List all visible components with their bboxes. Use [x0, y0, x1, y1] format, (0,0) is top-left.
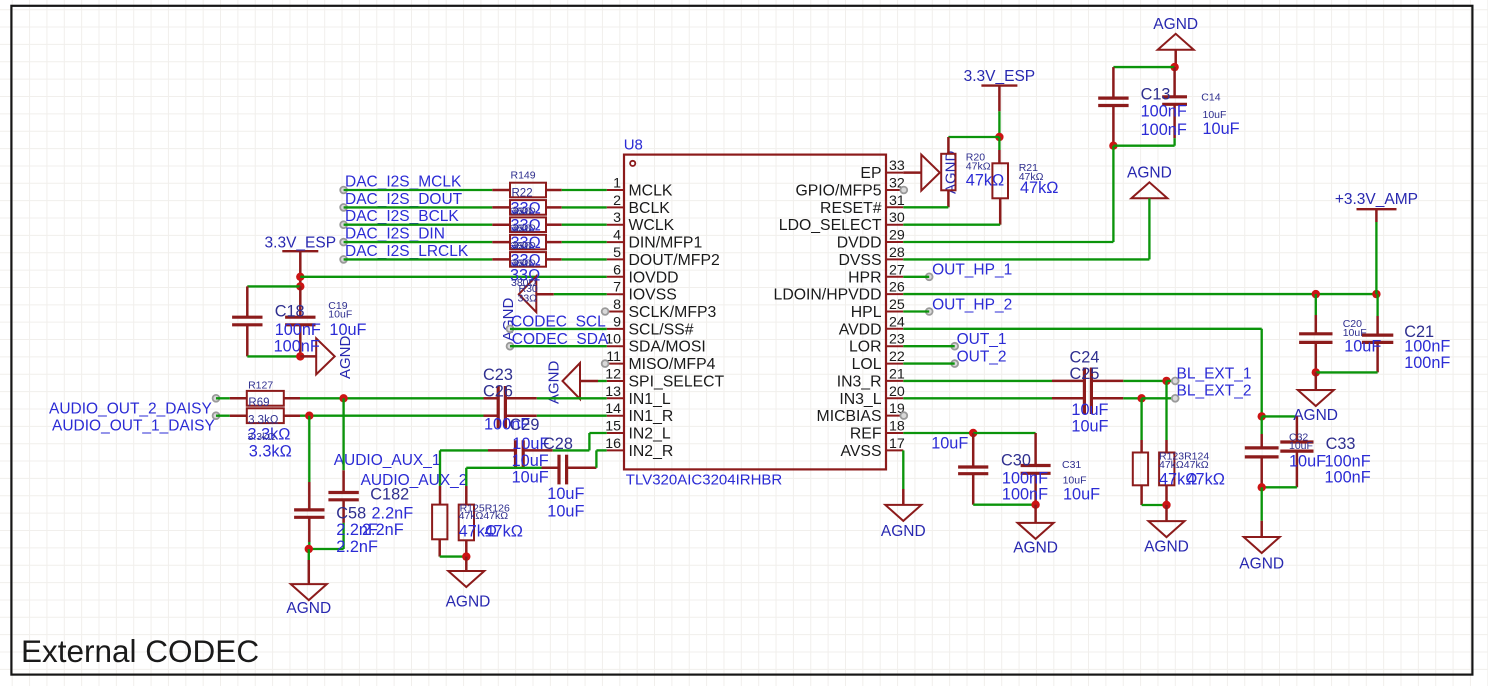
svg-text:R69: R69: [248, 397, 269, 409]
svg-text:3.3V_ESP: 3.3V_ESP: [265, 235, 337, 252]
svg-text:24: 24: [889, 314, 905, 330]
svg-text:BL_EXT_1: BL_EXT_1: [1177, 365, 1252, 382]
svg-text:C33: C33: [1326, 435, 1356, 453]
svg-text:External CODEC: External CODEC: [21, 633, 259, 669]
svg-text:R22: R22: [512, 188, 533, 200]
svg-text:SCL/SS#: SCL/SS#: [629, 321, 694, 338]
svg-text:C29: C29: [510, 416, 540, 434]
svg-text:33Ω: 33Ω: [513, 240, 533, 252]
svg-text:C26: C26: [483, 383, 513, 401]
svg-text:2.2nF: 2.2nF: [372, 505, 414, 523]
svg-text:100nF: 100nF: [1404, 354, 1450, 372]
svg-text:AGND: AGND: [1153, 16, 1198, 33]
svg-text:SPI_SELECT: SPI_SELECT: [629, 374, 725, 391]
svg-text:10uF: 10uF: [547, 503, 584, 521]
svg-text:IOVSS: IOVSS: [629, 287, 677, 304]
svg-text:WCLK: WCLK: [629, 217, 675, 234]
svg-text:C23: C23: [483, 366, 513, 384]
svg-text:23: 23: [889, 332, 905, 348]
svg-text:IN2_L: IN2_L: [629, 426, 671, 443]
svg-text:10uF: 10uF: [512, 469, 549, 487]
svg-text:U8: U8: [624, 137, 643, 154]
svg-text:+3.3V_AMP: +3.3V_AMP: [1335, 191, 1418, 208]
svg-text:13: 13: [605, 384, 621, 400]
svg-text:OUT_1: OUT_1: [957, 331, 1007, 348]
svg-text:OUT_HP_2: OUT_HP_2: [932, 296, 1012, 313]
svg-text:10uF: 10uF: [1289, 453, 1326, 471]
svg-text:47kΩ: 47kΩ: [485, 522, 523, 540]
svg-text:AGND: AGND: [1293, 407, 1338, 424]
svg-text:AGND: AGND: [1144, 539, 1189, 556]
svg-text:DVSS: DVSS: [838, 252, 881, 269]
svg-text:LDO_SELECT: LDO_SELECT: [779, 217, 882, 234]
svg-text:10uF: 10uF: [1344, 338, 1381, 356]
svg-text:DAC_I2S_LRCLK: DAC_I2S_LRCLK: [345, 243, 469, 260]
svg-text:33Ω: 33Ω: [518, 293, 538, 305]
svg-text:8: 8: [613, 297, 621, 313]
svg-text:20: 20: [889, 384, 905, 400]
svg-text:GPIO/MFP5: GPIO/MFP5: [795, 183, 881, 200]
svg-text:6: 6: [613, 262, 621, 278]
svg-text:C182: C182: [370, 485, 409, 503]
svg-text:14: 14: [605, 401, 621, 417]
svg-text:100nF: 100nF: [275, 321, 321, 339]
svg-text:27: 27: [889, 262, 905, 278]
svg-text:AGND: AGND: [1127, 164, 1172, 181]
svg-text:28: 28: [889, 245, 905, 261]
svg-text:SCLK/MFP3: SCLK/MFP3: [629, 304, 717, 321]
svg-text:AGND: AGND: [446, 594, 491, 611]
svg-text:R127: R127: [248, 380, 273, 392]
svg-text:AVDD: AVDD: [839, 321, 882, 338]
svg-text:REF: REF: [850, 426, 882, 443]
svg-text:C28: C28: [543, 435, 573, 453]
svg-text:380Ω: 380Ω: [511, 277, 537, 289]
svg-text:DAC_I2S_DIN: DAC_I2S_DIN: [345, 226, 445, 243]
svg-text:47kΩ47kΩ: 47kΩ47kΩ: [459, 510, 509, 522]
svg-text:C24: C24: [1070, 349, 1100, 367]
svg-text:EP: EP: [860, 165, 881, 182]
svg-text:10uF: 10uF: [931, 435, 968, 453]
svg-text:C25: C25: [1070, 365, 1100, 383]
svg-text:100nF: 100nF: [274, 337, 320, 355]
svg-text:17: 17: [889, 436, 905, 452]
svg-text:100nF: 100nF: [1325, 469, 1371, 487]
svg-text:LDOIN/HPVDD: LDOIN/HPVDD: [774, 287, 882, 304]
svg-text:OUT_HP_1: OUT_HP_1: [932, 261, 1012, 278]
svg-text:MISO/MFP4: MISO/MFP4: [629, 356, 716, 373]
svg-text:3.3kΩ: 3.3kΩ: [248, 431, 276, 443]
svg-text:100nF: 100nF: [1404, 338, 1450, 356]
svg-text:HPL: HPL: [851, 304, 882, 321]
svg-text:18: 18: [889, 419, 905, 435]
svg-text:100nF: 100nF: [1141, 121, 1187, 139]
svg-text:IN1_R: IN1_R: [629, 408, 674, 425]
svg-text:26: 26: [889, 280, 905, 296]
svg-text:C30: C30: [1001, 452, 1031, 470]
svg-text:AGND: AGND: [943, 150, 960, 194]
svg-text:C31: C31: [1062, 459, 1081, 471]
svg-text:DAC_I2S_MCLK: DAC_I2S_MCLK: [345, 174, 462, 191]
svg-text:AGND: AGND: [337, 335, 354, 379]
svg-text:10uF: 10uF: [547, 485, 584, 503]
svg-text:2.2nF: 2.2nF: [362, 521, 404, 539]
svg-text:47kΩ: 47kΩ: [966, 172, 1004, 190]
svg-text:AUDIO_OUT_2_DAISY: AUDIO_OUT_2_DAISY: [49, 400, 212, 417]
svg-text:9: 9: [613, 314, 621, 330]
svg-text:25: 25: [889, 297, 905, 313]
svg-text:DVDD: DVDD: [837, 235, 882, 252]
svg-text:33: 33: [889, 158, 905, 174]
svg-text:5: 5: [613, 245, 621, 261]
svg-text:DOUT/MFP2: DOUT/MFP2: [629, 252, 720, 269]
svg-text:1: 1: [613, 176, 621, 192]
svg-text:10uF: 10uF: [1071, 417, 1108, 435]
svg-text:DAC_I2S_BCLK: DAC_I2S_BCLK: [345, 208, 459, 225]
svg-text:TLV320AIC3204IRHBR: TLV320AIC3204IRHBR: [626, 472, 783, 489]
svg-text:C58: C58: [336, 505, 366, 523]
svg-text:AUDIO_OUT_1_DAISY: AUDIO_OUT_1_DAISY: [52, 418, 215, 435]
svg-text:IN3_L: IN3_L: [839, 391, 881, 408]
svg-text:MCLK: MCLK: [629, 183, 673, 200]
svg-text:31: 31: [889, 193, 905, 209]
svg-text:AGND: AGND: [1013, 540, 1058, 557]
svg-text:C18: C18: [275, 302, 305, 320]
svg-text:4: 4: [613, 228, 621, 244]
svg-text:AUDIO_AUX_1: AUDIO_AUX_1: [334, 452, 441, 469]
svg-text:AGND: AGND: [881, 523, 926, 540]
svg-text:10uF: 10uF: [329, 321, 366, 339]
svg-text:47kΩ: 47kΩ: [1020, 179, 1058, 197]
svg-text:DAC_I2S_DOUT: DAC_I2S_DOUT: [345, 191, 463, 208]
svg-text:LOL: LOL: [852, 356, 882, 373]
svg-text:C14: C14: [1201, 92, 1220, 104]
svg-text:C13: C13: [1141, 85, 1171, 103]
svg-text:15: 15: [605, 419, 621, 435]
svg-text:IN1_L: IN1_L: [629, 391, 671, 408]
svg-text:10uF: 10uF: [328, 308, 352, 320]
svg-text:IOVDD: IOVDD: [629, 269, 679, 286]
svg-text:7: 7: [613, 280, 621, 296]
svg-text:47kΩ: 47kΩ: [1187, 471, 1225, 489]
svg-text:33Ω: 33Ω: [513, 205, 533, 217]
svg-text:IN3_R: IN3_R: [837, 373, 882, 390]
svg-text:12: 12: [605, 367, 621, 383]
svg-text:IN2_R: IN2_R: [629, 443, 674, 460]
svg-text:3.3V_ESP: 3.3V_ESP: [964, 68, 1036, 85]
svg-text:2: 2: [613, 193, 621, 209]
svg-text:AVSS: AVSS: [841, 443, 882, 460]
svg-text:DIN/MFP1: DIN/MFP1: [629, 235, 703, 252]
svg-text:100nF: 100nF: [1141, 103, 1187, 121]
svg-text:10uF: 10uF: [1289, 440, 1313, 452]
svg-text:R149: R149: [511, 170, 536, 182]
svg-text:BCLK: BCLK: [629, 200, 671, 217]
svg-text:HPR: HPR: [848, 269, 881, 286]
svg-text:16: 16: [605, 436, 621, 452]
svg-text:3.3kΩ: 3.3kΩ: [249, 443, 292, 461]
svg-text:10uF: 10uF: [1063, 486, 1100, 504]
svg-text:BL_EXT_2: BL_EXT_2: [1177, 383, 1252, 400]
svg-text:2.2nF: 2.2nF: [336, 538, 378, 556]
svg-text:33Ω: 33Ω: [513, 223, 533, 235]
svg-text:21: 21: [889, 366, 905, 382]
svg-text:AGND: AGND: [286, 600, 331, 617]
svg-text:AGND: AGND: [1239, 556, 1284, 573]
svg-text:10uF: 10uF: [512, 452, 549, 470]
svg-text:SDA/MOSI: SDA/MOSI: [629, 339, 706, 356]
svg-text:29: 29: [889, 228, 905, 244]
svg-text:OUT_2: OUT_2: [957, 348, 1007, 365]
svg-text:30: 30: [889, 210, 905, 226]
svg-text:100nF: 100nF: [1002, 486, 1048, 504]
svg-text:3: 3: [613, 210, 621, 226]
svg-text:47kΩ47kΩ: 47kΩ47kΩ: [1159, 459, 1209, 471]
svg-text:LOR: LOR: [849, 339, 881, 356]
svg-text:10uF: 10uF: [1071, 401, 1108, 419]
svg-text:10uF: 10uF: [1203, 120, 1240, 138]
svg-text:RESET#: RESET#: [820, 200, 882, 217]
svg-text:22: 22: [889, 349, 905, 365]
svg-text:MICBIAS: MICBIAS: [817, 408, 882, 425]
